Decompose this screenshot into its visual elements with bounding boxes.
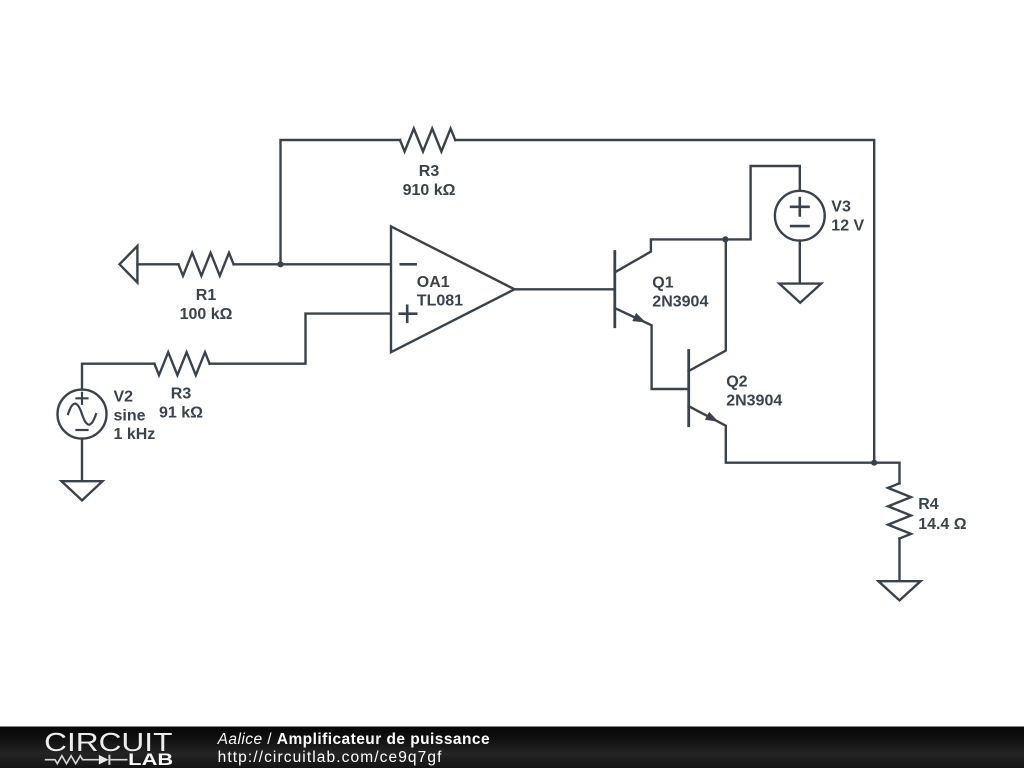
op-amp plus input mark [400, 306, 416, 322]
resistor R3 (910k feedback) [400, 129, 455, 152]
ground for V2 [62, 481, 103, 500]
svg-text:R4: R4 [918, 496, 939, 513]
wire R3 to op-amp plus input [210, 314, 391, 364]
Q1 emitter arrow [632, 313, 646, 323]
op-amp minus input mark [401, 263, 416, 266]
transistor Q1 base bar [613, 252, 616, 327]
svg-text:100 kΩ: 100 kΩ [180, 306, 233, 323]
op-amp U1 OA1 triangle [391, 226, 515, 352]
voltage source V2 [58, 390, 107, 439]
wire V2 top lead [82, 364, 154, 390]
wire node B to V3 [725, 166, 799, 239]
V2 sine mark [68, 404, 96, 425]
svg-text:14.4 Ω: 14.4 Ω [918, 516, 967, 533]
wire R1 to op-amp minus input [234, 263, 391, 265]
V3 plus mark [791, 198, 808, 215]
svg-text:Q1: Q1 [652, 275, 673, 292]
svg-text:910 kΩ: 910 kΩ [403, 182, 456, 199]
transistor Q2 base bar [687, 351, 690, 426]
resistor R1 [178, 253, 233, 276]
svg-text:R3: R3 [171, 386, 192, 403]
svg-text:R3: R3 [419, 163, 440, 180]
svg-text:V2: V2 [114, 388, 134, 405]
CircuitLab logo squiggle [45, 755, 128, 765]
wire V3 bottom lead [799, 241, 801, 284]
resistor R4 [888, 483, 911, 538]
svg-text:sine: sine [114, 407, 146, 424]
svg-text:1 kHz: 1 kHz [114, 426, 156, 443]
node A junction dot [277, 261, 283, 267]
wire V2 bottom lead [81, 439, 83, 482]
wire input to R1 [137, 263, 178, 265]
transistor Q1 emitter [615, 308, 689, 389]
svg-text:2N3904: 2N3904 [726, 393, 782, 410]
wire op-amp output to Q1 base [515, 288, 615, 290]
svg-text:2N3904: 2N3904 [652, 294, 708, 311]
V2 minus mark [77, 429, 88, 431]
wire feedback vertical [281, 140, 401, 264]
transistor Q2 emitter [689, 406, 875, 463]
V2 plus mark [77, 393, 88, 404]
ground for R4 [878, 581, 920, 600]
wire node C to R4 [874, 463, 899, 484]
svg-text:Aalice / Amplificateur de puis: Aalice / Amplificateur de puissance [217, 731, 490, 748]
ground for V3 [779, 284, 821, 303]
input terminal node IN [120, 246, 138, 283]
svg-text:Q2: Q2 [726, 374, 747, 391]
V3 minus mark [791, 225, 808, 228]
svg-text:V3: V3 [831, 199, 851, 216]
node C junction dot [871, 460, 877, 466]
svg-text:12 V: 12 V [831, 218, 864, 235]
wire R4 bottom lead [898, 539, 900, 582]
svg-text:91 kΩ: 91 kΩ [159, 405, 203, 422]
wire R3 to right rail [455, 140, 874, 463]
voltage source V3 [775, 191, 825, 241]
svg-text:LAB: LAB [128, 751, 173, 768]
transistor Q1 collector [615, 239, 726, 272]
resistor R3 (91k input) [154, 352, 209, 375]
svg-text:R1: R1 [196, 287, 217, 304]
svg-text:http://circuitlab.com/ce9q7gf: http://circuitlab.com/ce9q7gf [218, 749, 443, 766]
Q2 emitter arrow [705, 412, 719, 422]
node B junction dot [722, 236, 728, 242]
svg-text:TL081: TL081 [417, 293, 463, 310]
svg-text:OA1: OA1 [417, 274, 450, 291]
transistor Q2 collector [689, 239, 726, 371]
